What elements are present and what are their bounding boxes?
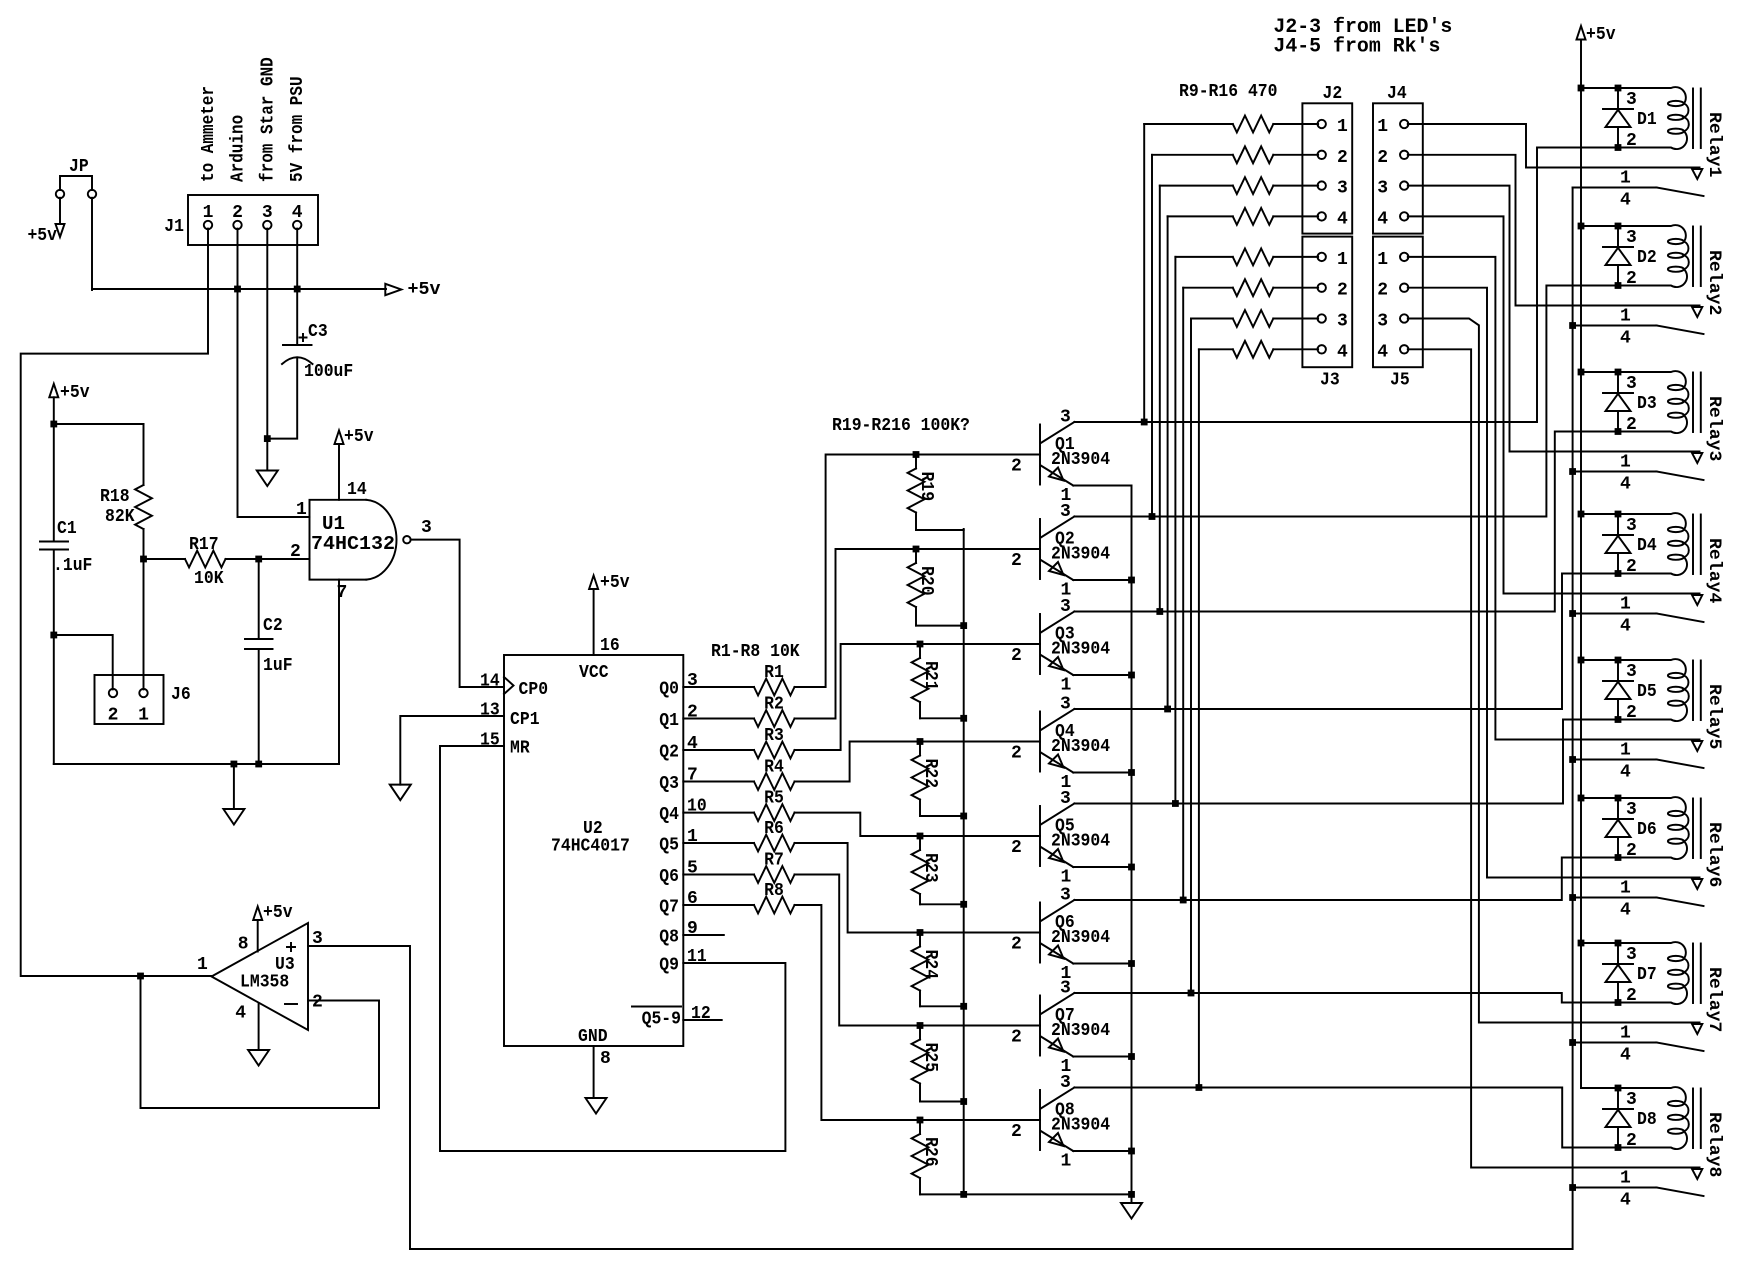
wire R16 to Q8 collector xyxy=(1198,349,1200,1087)
junction collector Q5 to R13 xyxy=(1172,800,1179,807)
svg-text:MR: MR xyxy=(510,739,530,759)
wire U2 Q6 to R7 xyxy=(683,874,754,876)
relay Relay8 pin 4 blade xyxy=(1573,1188,1704,1211)
svg-text:Relay1: Relay1 xyxy=(1704,112,1724,177)
svg-text:Relay3: Relay3 xyxy=(1704,396,1724,461)
junction +5v rail relay6 xyxy=(1578,795,1585,802)
resistor R19 xyxy=(908,455,964,531)
junction emitter rail xyxy=(1128,577,1135,584)
relay Relay5 coil xyxy=(1618,659,1724,749)
relay Relay8 pin 1 contact xyxy=(1620,1169,1702,1189)
resistor R9 xyxy=(1144,116,1318,133)
svg-text:8: 8 xyxy=(600,1049,611,1069)
svg-text:R18: R18 xyxy=(100,487,130,507)
resistor R17 xyxy=(144,535,259,589)
relay Relay4 pin 1 contact xyxy=(1620,595,1702,615)
resistor R22 xyxy=(912,742,964,817)
wire J5-3 to relay7 pin 1 xyxy=(1408,319,1700,1023)
junction D4 anode xyxy=(1615,570,1622,577)
svg-text:Arduino: Arduino xyxy=(229,115,249,182)
svg-text:+5v: +5v xyxy=(60,383,90,403)
wire U1 pin 7 to ground rail xyxy=(338,580,340,764)
transistor Q4 2N3904 xyxy=(1011,695,1110,794)
junction D3 cathode xyxy=(1615,369,1622,376)
svg-text:1: 1 xyxy=(1620,307,1631,327)
svg-text:4: 4 xyxy=(1620,329,1631,349)
wire U2 Q0 to R1 xyxy=(683,686,754,688)
svg-text:D6: D6 xyxy=(1637,820,1657,840)
svg-text:R4: R4 xyxy=(764,758,784,778)
svg-text:4: 4 xyxy=(1620,763,1631,783)
svg-text:1: 1 xyxy=(1620,1024,1631,1044)
connector J4 xyxy=(1373,84,1423,234)
junction R22 on pulldown rail xyxy=(960,813,967,820)
wire relay4 coil top xyxy=(1581,513,1618,515)
svg-text:4: 4 xyxy=(292,203,303,223)
relay Relay5 pin 4 blade xyxy=(1573,760,1704,783)
svg-text:4: 4 xyxy=(1620,191,1631,211)
junction +5v rail relay5 xyxy=(1578,657,1585,664)
svg-text:10K: 10K xyxy=(194,569,224,589)
wire U2 Q1 to R2 xyxy=(683,718,754,720)
relay Relay2 coil xyxy=(1618,225,1724,315)
connector J3 xyxy=(1302,237,1352,391)
svg-text:1: 1 xyxy=(203,203,214,223)
svg-text:J2: J2 xyxy=(1323,84,1343,104)
svg-text:2: 2 xyxy=(232,203,243,223)
resistor R2 xyxy=(754,695,795,727)
junction J1-2 on +5v rail xyxy=(234,286,241,293)
resistor R8 xyxy=(754,881,795,913)
wire J1-2 to U1 pin 1 xyxy=(238,229,310,517)
transistor Q5 2N3904 xyxy=(1011,789,1110,888)
junction C2 ground rail xyxy=(255,761,262,768)
resistor R21 xyxy=(912,644,964,718)
junction D6 anode xyxy=(1615,854,1622,861)
svg-text:2: 2 xyxy=(1011,646,1022,666)
svg-text:+5v: +5v xyxy=(27,226,57,246)
wire Q8 collector to relay8 coil xyxy=(1074,1088,1618,1148)
relay Relay6 coil xyxy=(1618,797,1724,887)
junction +5v C1 R18 xyxy=(50,421,57,428)
wire U3 output to feedback xyxy=(141,975,212,977)
relay Relay6 pin 4 blade xyxy=(1573,898,1704,921)
junction D8 anode xyxy=(1615,1144,1622,1151)
wire U1 output to U2 CP0 xyxy=(411,540,504,687)
svg-text:3: 3 xyxy=(1060,408,1071,428)
junction emitter rail xyxy=(1128,1148,1135,1155)
svg-text:R3: R3 xyxy=(764,726,784,746)
svg-text:R9-R16 470: R9-R16 470 xyxy=(1179,82,1278,102)
svg-text:1: 1 xyxy=(1620,879,1631,899)
svg-text:Q7: Q7 xyxy=(659,898,679,918)
svg-text:2: 2 xyxy=(1011,1028,1022,1048)
svg-text:VCC: VCC xyxy=(579,663,609,683)
svg-text:Q8: Q8 xyxy=(659,928,679,948)
svg-text:1: 1 xyxy=(1061,676,1072,696)
svg-text:6: 6 xyxy=(687,889,698,909)
svg-text:Relay8: Relay8 xyxy=(1704,1112,1724,1177)
diode D8 xyxy=(1603,1088,1657,1151)
junction pulldown rail at bottom xyxy=(960,1191,967,1198)
wire +5v rail from JP to arrow xyxy=(92,288,386,290)
svg-text:2: 2 xyxy=(1011,935,1022,955)
svg-text:Relay7: Relay7 xyxy=(1704,967,1724,1032)
svg-text:3: 3 xyxy=(421,518,432,538)
diode D4 xyxy=(1603,514,1657,577)
wire R8 to Q8 base xyxy=(795,905,1041,1120)
junction C1 J6 xyxy=(50,632,57,639)
wire R17 to U1 pin 2 xyxy=(259,558,310,560)
wire R1 to Q1 base xyxy=(795,455,1041,688)
svg-text:2: 2 xyxy=(1011,838,1022,858)
svg-text:R5: R5 xyxy=(764,789,784,809)
svg-text:4: 4 xyxy=(1620,617,1631,637)
wire J5-4 to relay8 pin 1 xyxy=(1408,349,1700,1167)
svg-text:R1: R1 xyxy=(764,663,784,683)
resistor R23 xyxy=(912,836,964,904)
junction collector Q8 to R16 xyxy=(1196,1084,1203,1091)
svg-text:LM358: LM358 xyxy=(240,973,289,993)
wire R9 to Q1 collector xyxy=(1143,124,1145,422)
svg-text:5: 5 xyxy=(687,859,698,879)
svg-text:J3: J3 xyxy=(1320,371,1340,391)
svg-text:U1: U1 xyxy=(322,513,345,535)
svg-text:2N3904: 2N3904 xyxy=(1051,737,1110,757)
svg-text:14: 14 xyxy=(347,480,367,500)
wire Q1 collector to relay1 coil xyxy=(1074,148,1618,423)
connector J2 xyxy=(1302,84,1352,234)
wire JP pin 2 to +5v rail xyxy=(91,198,93,290)
resistor R20 xyxy=(908,549,964,626)
svg-text:3: 3 xyxy=(1626,228,1637,248)
capacitor C1 xyxy=(40,424,92,635)
svg-text:R25: R25 xyxy=(920,1043,940,1073)
svg-text:Q0: Q0 xyxy=(659,680,679,700)
svg-text:J6: J6 xyxy=(171,685,191,705)
svg-text:+5v: +5v xyxy=(344,427,374,447)
junction D5 cathode xyxy=(1615,657,1622,664)
junction emitter rail bottom xyxy=(1128,1191,1135,1198)
diode D5 xyxy=(1603,660,1657,723)
junction D1 anode xyxy=(1615,144,1622,151)
wire U2 Q3 to R4 xyxy=(683,781,754,783)
junction U3 feedback xyxy=(137,973,144,980)
wire relay1 coil top xyxy=(1581,87,1618,89)
wire relay5 coil top xyxy=(1581,659,1618,661)
wire Q3 collector to relay3 coil xyxy=(1074,432,1618,612)
wire R7 to Q7 base xyxy=(795,875,1041,1026)
svg-text:4: 4 xyxy=(1620,1046,1631,1066)
diode D7 xyxy=(1603,943,1657,1006)
junction collector Q7 to R15 xyxy=(1188,990,1195,997)
svg-text:CP0: CP0 xyxy=(519,680,549,700)
wire relay2 coil top xyxy=(1581,225,1618,227)
wire U2 Q2 to R3 xyxy=(683,749,754,751)
resistor R16 xyxy=(1199,341,1318,358)
svg-text:R1-R8 10K: R1-R8 10K xyxy=(711,642,800,662)
wire R3 to Q3 base xyxy=(795,644,1041,750)
svg-text:82K: 82K xyxy=(105,507,135,527)
wire R18 to J6 pin 1 xyxy=(143,559,145,689)
wire relay8 coil top xyxy=(1581,1087,1618,1089)
svg-text:3: 3 xyxy=(1626,1090,1637,1110)
resistor R11 xyxy=(1160,177,1318,194)
svg-text:C1: C1 xyxy=(57,519,77,539)
svg-text:4: 4 xyxy=(1620,1191,1631,1211)
junction collector Q3 to R11 xyxy=(1156,608,1163,615)
junction collector Q6 to R14 xyxy=(1180,897,1187,904)
svg-text:R19-R216 100K?: R19-R216 100K? xyxy=(832,416,970,436)
svg-text:4: 4 xyxy=(1337,342,1348,362)
wire emitter rail to ground xyxy=(1073,486,1131,1195)
junction J1-3 C3 xyxy=(264,435,271,442)
svg-text:Q4: Q4 xyxy=(659,805,679,825)
svg-text:2N3904: 2N3904 xyxy=(1051,450,1110,470)
svg-text:D4: D4 xyxy=(1637,536,1657,556)
svg-text:3: 3 xyxy=(1060,789,1071,809)
relay Relay4 coil xyxy=(1618,513,1724,603)
wire R4 to Q4 base xyxy=(795,742,1041,782)
svg-text:1: 1 xyxy=(1620,169,1631,189)
junction emitter rail xyxy=(1128,864,1135,871)
wire J1-4 to C3 xyxy=(296,229,298,344)
svg-text:2: 2 xyxy=(1337,281,1348,301)
svg-text:D5: D5 xyxy=(1637,682,1657,702)
wire Q7 collector to relay7 coil xyxy=(1074,993,1618,1003)
connector JP xyxy=(56,157,96,198)
svg-text:Relay2: Relay2 xyxy=(1704,250,1724,315)
svg-text:1: 1 xyxy=(296,500,307,520)
svg-text:3: 3 xyxy=(1626,800,1637,820)
ground at J1-3 xyxy=(257,439,278,486)
wire base pulldown rail xyxy=(963,529,965,1194)
resistor R26 xyxy=(912,1120,940,1194)
junction emitter rail xyxy=(1128,960,1135,967)
relay Relay2 pin 1 contact xyxy=(1620,307,1702,327)
transistor Q6 2N3904 xyxy=(1011,886,1110,985)
wire U2 MR to Q9 loop xyxy=(440,746,785,1151)
svg-text:1: 1 xyxy=(1620,595,1631,615)
svg-text:1: 1 xyxy=(1620,1169,1631,1189)
pin Q5-9 label U2 xyxy=(632,1007,681,1030)
junction collector Q2 to R10 xyxy=(1149,513,1156,520)
svg-text:Q5: Q5 xyxy=(659,836,679,856)
svg-text:4: 4 xyxy=(1377,342,1388,362)
svg-text:R26: R26 xyxy=(920,1137,940,1167)
junction D1 cathode xyxy=(1615,85,1622,92)
resistor R7 xyxy=(754,851,795,883)
svg-text:D1: D1 xyxy=(1637,110,1657,130)
wire J4-4 to relay4 pin 1 xyxy=(1408,216,1700,593)
resistor R13 xyxy=(1175,249,1318,266)
wire R15 to Q7 collector xyxy=(1190,319,1192,994)
wire transistor ground rail xyxy=(920,1193,1132,1195)
resistor R1 xyxy=(754,663,795,695)
svg-text:3: 3 xyxy=(1377,312,1388,332)
transistor Q1 2N3904 xyxy=(1011,408,1110,507)
junction D7 anode xyxy=(1615,999,1622,1006)
svg-text:1: 1 xyxy=(1337,250,1348,270)
junction J1-4 on +5v rail xyxy=(294,286,301,293)
junction R26 on base xyxy=(917,1117,924,1124)
svg-text:C3: C3 xyxy=(308,322,328,342)
junction pin-4 rail relay7 xyxy=(1569,1039,1576,1046)
wire U2 GND pin xyxy=(593,1046,595,1098)
power +5v at U3 pin 8 xyxy=(253,903,293,952)
relay Relay3 coil xyxy=(1618,371,1724,461)
svg-text:3: 3 xyxy=(1060,597,1071,617)
wire J1-3 to ground xyxy=(266,229,268,439)
ground at U3 pin 4 xyxy=(248,1050,269,1066)
capacitor C3 xyxy=(282,322,353,382)
junction pin-4 rail relay4 xyxy=(1569,610,1576,617)
junction R24 on base xyxy=(917,929,924,936)
resistor R25 xyxy=(912,1026,964,1102)
wire J1-1 to ammeter line xyxy=(21,229,211,976)
junction pin-4 rail relay3 xyxy=(1569,468,1576,475)
wire Q2 collector to relay2 coil xyxy=(1074,286,1618,517)
wire R14 to Q6 collector xyxy=(1182,288,1184,900)
relay Relay5 pin 1 contact xyxy=(1620,741,1702,761)
relay Relay7 coil xyxy=(1618,942,1724,1032)
junction D8 cathode xyxy=(1615,1085,1622,1092)
wire R5 to Q5 base xyxy=(795,813,1041,836)
junction +5v rail relay7 xyxy=(1578,940,1585,947)
junction D7 cathode xyxy=(1615,940,1622,947)
relay Relay2 pin 4 blade xyxy=(1573,326,1704,349)
svg-text:2: 2 xyxy=(687,703,698,723)
ground below C1 rail xyxy=(223,764,244,825)
junction R19 on base xyxy=(913,451,920,458)
wire J4-1 to relay1 pin 1 xyxy=(1408,124,1700,168)
svg-text:R24: R24 xyxy=(920,950,940,980)
svg-text:2: 2 xyxy=(1011,1122,1022,1142)
power +5v at U1 pin 14 xyxy=(335,427,374,500)
connector J1 xyxy=(164,195,318,245)
wire +5v to R18 xyxy=(54,423,144,425)
relay Relay1 coil xyxy=(1618,87,1724,177)
wire R2 to Q2 base xyxy=(795,549,1041,719)
svg-text:3: 3 xyxy=(262,203,273,223)
wire U2 Q7 to R8 xyxy=(683,904,754,906)
junction pin-4 rail relay6 xyxy=(1569,894,1576,901)
junction +5v rail relay3 xyxy=(1578,369,1585,376)
svg-text:D2: D2 xyxy=(1637,248,1657,268)
svg-text:R21: R21 xyxy=(920,661,940,691)
svg-text:D7: D7 xyxy=(1637,965,1657,985)
svg-text:4: 4 xyxy=(687,734,698,754)
svg-text:2: 2 xyxy=(312,993,323,1013)
svg-text:1: 1 xyxy=(197,955,208,975)
svg-text:1: 1 xyxy=(1377,117,1388,137)
junction R21 on pulldown rail xyxy=(960,715,967,722)
junction R20 on base xyxy=(913,546,920,553)
svg-text:12: 12 xyxy=(691,1004,711,1024)
svg-text:R6: R6 xyxy=(764,819,784,839)
wire Q4 collector to relay4 coil xyxy=(1074,574,1618,710)
wire relay pin-4 rail to LM358 input xyxy=(410,188,1573,1250)
wire J5-1 to relay5 pin 1 xyxy=(1408,257,1700,740)
ground at U2 CP1 xyxy=(390,785,411,801)
relay Relay3 pin 4 blade xyxy=(1573,472,1704,495)
svg-text:3: 3 xyxy=(1626,945,1637,965)
svg-text:1: 1 xyxy=(1061,868,1072,888)
svg-text:2N3904: 2N3904 xyxy=(1051,640,1110,660)
junction D5 anode xyxy=(1615,716,1622,723)
op-amp U1 74HC132 gate body xyxy=(310,500,411,580)
svg-text:3: 3 xyxy=(1337,312,1348,332)
power +5v at U2 VCC xyxy=(589,573,630,655)
resistor R15 xyxy=(1191,310,1318,327)
wire relay7 coil top xyxy=(1581,942,1618,944)
svg-text:2: 2 xyxy=(1337,148,1348,168)
svg-text:R19: R19 xyxy=(916,472,936,502)
svg-text:3: 3 xyxy=(687,671,698,691)
power +5v top right xyxy=(1577,25,1616,45)
svg-text:3: 3 xyxy=(1626,662,1637,682)
relay Relay7 pin 1 contact xyxy=(1620,1024,1702,1044)
svg-text:3: 3 xyxy=(1060,502,1071,522)
svg-text:2N3904: 2N3904 xyxy=(1051,1021,1110,1041)
svg-text:from Star GND: from Star GND xyxy=(258,57,278,182)
relay Relay1 pin 1 contact xyxy=(1620,169,1702,189)
junction R25 on base xyxy=(917,1022,924,1029)
svg-text:GND: GND xyxy=(578,1027,608,1047)
svg-text:to Ammeter: to Ammeter xyxy=(199,86,219,182)
junction emitter rail xyxy=(1128,769,1135,776)
power +5v arrow right xyxy=(385,280,440,300)
resistor R10 xyxy=(1152,146,1318,163)
power +5v at JP pin 1 xyxy=(27,198,64,246)
junction ground stub xyxy=(231,761,238,768)
svg-text:2N3904: 2N3904 xyxy=(1051,545,1110,565)
svg-text:1: 1 xyxy=(687,827,698,847)
wire Q6 collector to relay6 coil xyxy=(1074,858,1618,901)
svg-text:Q5-9: Q5-9 xyxy=(642,1010,681,1030)
transistor Q7 2N3904 xyxy=(1011,979,1110,1078)
svg-text:R7: R7 xyxy=(764,851,784,871)
pin stub U2 Q8 xyxy=(683,934,724,936)
junction D2 anode xyxy=(1615,282,1622,289)
svg-text:8: 8 xyxy=(238,935,249,955)
op-amp U3 LM358 xyxy=(212,923,309,1030)
resistor R24 xyxy=(912,933,964,1007)
resistor R3 xyxy=(754,726,795,758)
wire R10 to Q2 collector xyxy=(1151,155,1153,517)
svg-text:3: 3 xyxy=(1626,516,1637,536)
svg-text:Q9: Q9 xyxy=(659,956,679,976)
svg-text:+5v: +5v xyxy=(1586,25,1616,45)
relay Relay7 pin 4 blade xyxy=(1573,1043,1704,1066)
svg-text:3: 3 xyxy=(1626,374,1637,394)
wire U2 CP1 to ground xyxy=(400,716,504,785)
svg-text:R20: R20 xyxy=(916,566,936,596)
svg-text:.1uF: .1uF xyxy=(53,556,92,576)
junction R24 on pulldown rail xyxy=(960,1003,967,1010)
svg-text:3: 3 xyxy=(1060,886,1071,906)
capacitor C2 xyxy=(245,559,293,764)
svg-text:3: 3 xyxy=(1060,1073,1071,1093)
relay Relay6 pin 1 contact xyxy=(1620,879,1702,899)
svg-text:J4-5 from Rk's: J4-5 from Rk's xyxy=(1273,36,1440,59)
connector J5 xyxy=(1373,237,1423,391)
svg-text:R22: R22 xyxy=(920,759,940,789)
diode D2 xyxy=(1603,226,1657,289)
svg-text:J4: J4 xyxy=(1387,84,1407,104)
svg-text:3: 3 xyxy=(1377,179,1388,199)
svg-text:1: 1 xyxy=(1377,250,1388,270)
